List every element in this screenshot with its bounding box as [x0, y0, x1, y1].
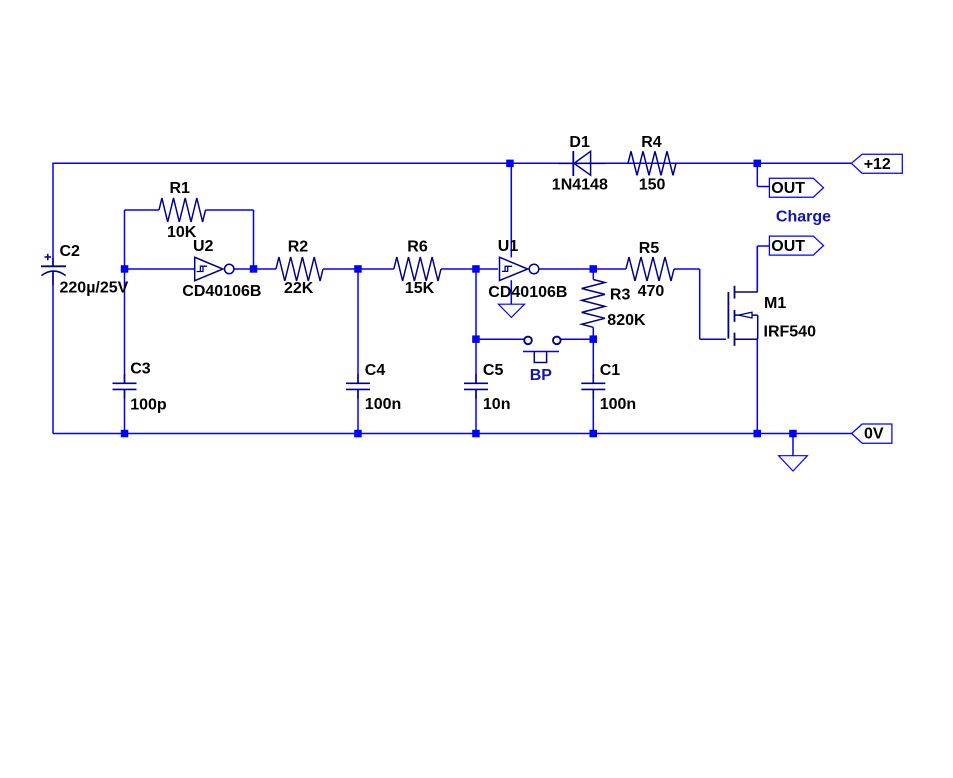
resistor R2	[276, 239, 323, 298]
wire OUT1 stub	[757, 163, 769, 186]
wire R1 right vertical	[253, 210, 255, 269]
capacitor C2 polarized	[41, 243, 129, 297]
wire C3 bottom	[124, 390, 126, 434]
svg-text:C2: C2	[60, 243, 81, 260]
ground under U1	[498, 304, 524, 317]
node junction 1	[121, 265, 129, 273]
svg-text:0V: 0V	[864, 425, 884, 442]
wire node to D1	[510, 162, 558, 164]
node junction 4	[472, 265, 480, 273]
svg-text:CD40106B: CD40106B	[182, 283, 261, 300]
svg-text:CD40106B: CD40106B	[488, 284, 567, 301]
wire BP row right	[561, 338, 593, 340]
node junction 9	[590, 335, 598, 343]
resistor R4	[628, 134, 676, 194]
node junction 10	[121, 430, 129, 438]
node junction 6	[506, 160, 514, 168]
resistor R1	[159, 180, 206, 241]
wire U1 power pin	[510, 163, 512, 304]
wire bottom rail	[53, 433, 852, 435]
node junction 5	[590, 265, 598, 273]
svg-text:100p: 100p	[130, 397, 167, 414]
switch BP pushbutton	[523, 337, 561, 384]
op-amp U2 schmitt inverter	[182, 238, 261, 300]
wire R2 to C4 node	[323, 268, 394, 270]
node junction 2	[250, 265, 257, 273]
svg-text:100n: 100n	[365, 396, 401, 413]
node junction 8	[472, 335, 480, 343]
wire C4 bottom	[357, 390, 359, 434]
wire BP row left	[476, 338, 524, 340]
svg-text:R3: R3	[610, 287, 631, 304]
wire R3 bottom lead	[592, 327, 594, 339]
svg-text:M1: M1	[764, 295, 786, 312]
node +12 flag	[851, 154, 902, 173]
node OUT1 flag	[769, 178, 823, 197]
svg-text:470: 470	[638, 283, 665, 300]
node junction 13	[590, 430, 598, 438]
svg-text:R2: R2	[288, 239, 309, 256]
svg-text:IRF540: IRF540	[764, 323, 817, 340]
wire U2 output	[233, 268, 276, 270]
svg-text:R4: R4	[641, 134, 662, 151]
wire left rail lower	[52, 273, 54, 434]
transistor M1 IRF540	[728, 286, 816, 346]
wire R4 to +12 node	[676, 162, 757, 164]
op-amp U1 schmitt inverter	[488, 238, 567, 301]
wire C5 top	[475, 269, 477, 383]
svg-text:+12: +12	[864, 156, 891, 173]
resistor R5	[626, 240, 674, 300]
wire M1 drain	[756, 246, 758, 292]
node junction 14	[754, 430, 762, 438]
node junction 7	[754, 160, 762, 168]
resistor R3	[582, 280, 646, 330]
svg-text:BP: BP	[530, 367, 553, 384]
node label Charge	[776, 209, 831, 226]
svg-text:10n: 10n	[483, 396, 511, 413]
svg-text:C5: C5	[483, 362, 504, 379]
wire C1 bottom	[592, 390, 594, 434]
svg-text:Charge: Charge	[776, 209, 831, 226]
wire R1 left vertical	[124, 210, 126, 269]
svg-text:C3: C3	[130, 361, 151, 378]
wire C4 top	[357, 269, 359, 383]
wire R3 top lead	[592, 269, 594, 280]
wire M1 source	[756, 339, 758, 433]
svg-text:R5: R5	[639, 240, 660, 257]
capacitor C5	[464, 362, 510, 413]
svg-text:1N4148: 1N4148	[552, 177, 608, 194]
svg-text:OUT: OUT	[771, 180, 805, 197]
wire R1 right lead	[206, 209, 254, 211]
capacitor C1	[581, 362, 636, 413]
wire C1 top	[592, 339, 594, 383]
wire R6 to C5 node	[441, 268, 499, 270]
svg-text:OUT: OUT	[771, 238, 805, 255]
diode D1 1N4148	[552, 134, 608, 194]
capacitor C4	[346, 362, 401, 413]
ground bottom right	[779, 456, 808, 471]
wire ground stub	[792, 434, 794, 456]
wire C3 top	[124, 269, 126, 383]
svg-text:U2: U2	[193, 238, 214, 255]
svg-text:15K: 15K	[405, 280, 435, 297]
svg-text:C4: C4	[365, 362, 386, 379]
svg-text:22K: 22K	[284, 280, 314, 297]
node junction 3	[354, 265, 362, 273]
svg-text:D1: D1	[569, 134, 590, 151]
svg-text:U1: U1	[498, 238, 519, 255]
svg-text:220µ/25V: 220µ/25V	[60, 280, 129, 297]
svg-text:R1: R1	[170, 180, 191, 197]
node junction 15	[789, 430, 797, 438]
svg-text:100n: 100n	[600, 396, 636, 413]
wire OUT2 stub	[757, 246, 769, 292]
wire U1 output	[538, 268, 626, 270]
svg-text:C1: C1	[600, 362, 621, 379]
wire D1 to R4	[605, 162, 628, 164]
wire R1 left lead	[125, 209, 160, 211]
wire left rail upper	[52, 163, 54, 267]
svg-text:150: 150	[639, 177, 666, 194]
wire C5 bottom	[475, 390, 477, 434]
node OUT2 flag	[769, 236, 823, 255]
svg-text:820K: 820K	[607, 312, 646, 329]
resistor R6	[394, 239, 441, 298]
wire top rail	[53, 162, 851, 164]
node junction 11	[354, 430, 362, 438]
capacitor C3	[113, 361, 167, 414]
node 0V flag	[852, 424, 892, 443]
node junction 12	[472, 430, 480, 438]
svg-text:R6: R6	[407, 239, 428, 256]
wire R5 to gate corner	[674, 269, 726, 339]
wire U2 input	[125, 268, 195, 270]
